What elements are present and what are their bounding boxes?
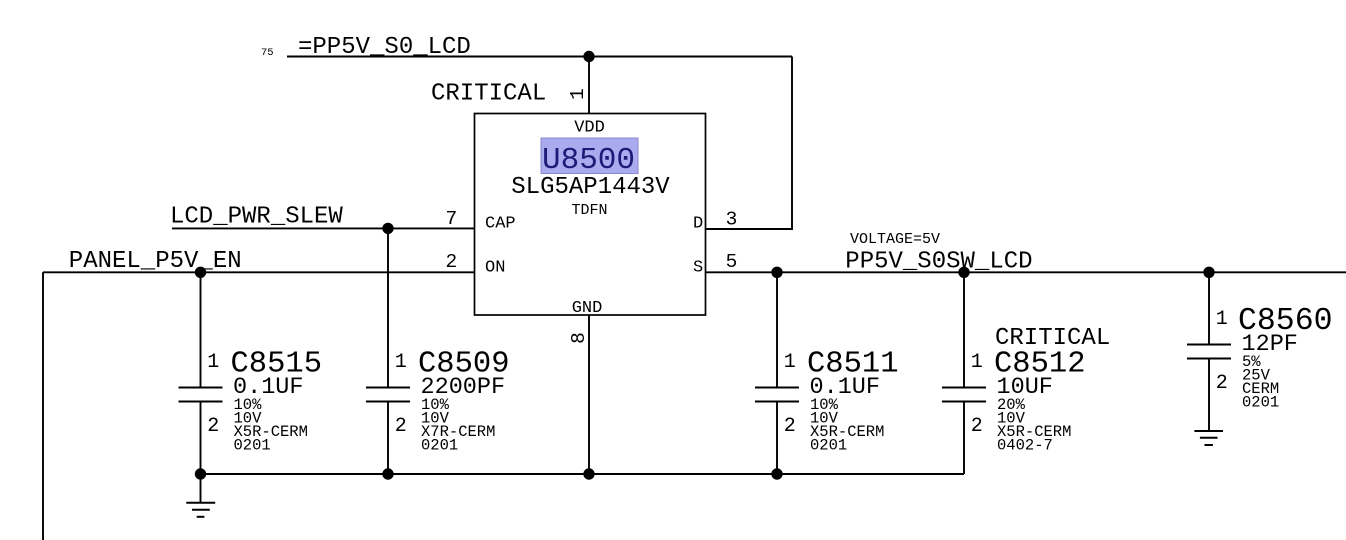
svg-text:2: 2 [446, 251, 458, 273]
svg-text:1: 1 [971, 351, 983, 374]
svg-text:1: 1 [395, 351, 407, 374]
svg-text:0201: 0201 [810, 437, 847, 455]
wire GND pin 8 stem [588, 315, 590, 474]
svg-text:=PP5V_S0_LCD: =PP5V_S0_LCD [298, 34, 471, 61]
node junction dot ground bus / C8515 [195, 468, 206, 479]
ground symbol under C8560 [1194, 431, 1223, 445]
refdes highlight box U8500 [541, 138, 638, 174]
wire LCD_PWR_SLEW to pin CAP [172, 227, 475, 229]
svg-text:1: 1 [207, 351, 219, 374]
capacitor C8511 labels [784, 348, 899, 455]
svg-text:PP5V_S0SW_LCD: PP5V_S0SW_LCD [845, 249, 1032, 276]
node junction dot ground bus / C8509 [382, 468, 393, 479]
wire PP5V_S0SW_LCD from pin S to right edge [706, 271, 1346, 273]
wire C8515 top stem [200, 272, 202, 387]
svg-text:PANEL_P5V_EN: PANEL_P5V_EN [69, 248, 242, 275]
svg-text:SLG5AP1443V: SLG5AP1443V [511, 174, 670, 201]
svg-text:2: 2 [207, 415, 219, 438]
node junction dot S output / C8511 [771, 267, 782, 278]
node junction dot S output / C8560 [1203, 267, 1214, 278]
wire C8509 bottom stem [387, 402, 389, 475]
wire C8515 bottom stem [200, 402, 202, 475]
node junction dot PANEL_P5V_EN / C8515 [195, 267, 206, 278]
svg-text:5: 5 [726, 251, 738, 273]
svg-text:1: 1 [784, 351, 796, 374]
svg-text:0201: 0201 [234, 437, 271, 455]
svg-text:1: 1 [567, 88, 589, 100]
svg-text:7: 7 [446, 208, 458, 230]
svg-text:TDFN: TDFN [571, 202, 607, 219]
wire ground stem under C8515 [200, 474, 202, 503]
svg-text:1: 1 [1216, 308, 1228, 331]
svg-text:D: D [693, 215, 703, 234]
svg-text:2: 2 [971, 415, 983, 438]
capacitor C8560 labels [1216, 304, 1333, 412]
svg-text:75: 75 [261, 47, 274, 59]
op-amp U8500 body box [475, 114, 706, 316]
wire C8509 top stem [387, 228, 389, 387]
svg-text:0201: 0201 [421, 437, 458, 455]
svg-text:0201: 0201 [1242, 394, 1279, 412]
svg-text:0402-7: 0402-7 [997, 437, 1053, 455]
capacitor C8512 plates [942, 388, 986, 402]
capacitor C8512 labels [971, 325, 1110, 455]
capacitor C8560 plates [1187, 345, 1231, 359]
node junction dot ground bus / C8511 [771, 468, 782, 479]
svg-text:VDD: VDD [574, 119, 605, 138]
capacitor C8509 labels [395, 348, 510, 455]
wire pin 1 VDD stub [588, 57, 590, 114]
svg-text:VOLTAGE=5V: VOLTAGE=5V [850, 231, 940, 248]
wire C8511 bottom stem [776, 402, 778, 475]
capacitor C8515 plates [179, 388, 223, 402]
capacitor C8515 labels [207, 348, 322, 455]
svg-text:GND: GND [572, 299, 603, 318]
capacitor C8511 plates [755, 388, 799, 402]
node junction dot ground bus / pin 8 [583, 468, 594, 479]
wire bottom ground bus [201, 473, 965, 475]
svg-text:ON: ON [485, 258, 505, 277]
svg-text:2: 2 [1216, 372, 1228, 395]
wire net =PP5V_S0_LCD top horizontal [287, 56, 792, 58]
node junction dot S output / C8512 [958, 267, 969, 278]
node junction dot LCD_PWR_SLEW / C8509 [382, 223, 393, 234]
svg-text:CRITICAL: CRITICAL [431, 81, 546, 108]
ground symbol under C8515 [186, 503, 215, 517]
wire C8512 bottom stem [963, 402, 965, 475]
wire C8560 bottom stem [1208, 359, 1210, 432]
svg-text:3: 3 [726, 209, 738, 231]
svg-text:2: 2 [395, 415, 407, 438]
wire left vertical drop PANEL_P5V_EN [42, 272, 44, 540]
wire C8560 top stem [1208, 272, 1210, 344]
wire right vertical drop to pin D [706, 57, 793, 230]
svg-text:S: S [693, 258, 703, 277]
svg-text:8: 8 [568, 332, 590, 344]
svg-text:2: 2 [784, 415, 796, 438]
wire C8511 top stem [776, 272, 778, 387]
wire PANEL_P5V_EN to pin ON [43, 271, 475, 273]
svg-text:U8500: U8500 [542, 143, 635, 178]
capacitor C8509 plates [366, 388, 410, 402]
wire C8512 top stem [963, 272, 965, 387]
svg-text:LCD_PWR_SLEW: LCD_PWR_SLEW [170, 204, 343, 231]
svg-text:CAP: CAP [485, 215, 516, 234]
node junction dot top net [583, 51, 594, 62]
